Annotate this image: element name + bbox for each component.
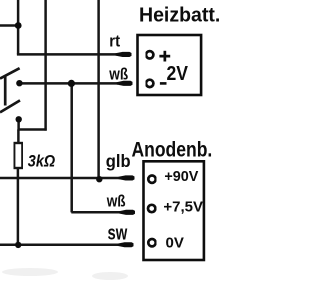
svg-text:+90V: +90V bbox=[164, 169, 198, 185]
svg-text:wß: wß bbox=[108, 65, 128, 84]
svg-text:rt: rt bbox=[109, 33, 120, 51]
svg-text:3kΩ: 3kΩ bbox=[28, 153, 55, 171]
svg-text:2V: 2V bbox=[167, 62, 189, 84]
svg-text:0V: 0V bbox=[166, 235, 184, 252]
svg-text:sw: sw bbox=[108, 221, 128, 244]
svg-text:Anodenb.: Anodenb. bbox=[132, 138, 213, 162]
svg-text:wß: wß bbox=[106, 192, 126, 211]
svg-text:glb: glb bbox=[106, 150, 131, 171]
svg-text:+7,5V: +7,5V bbox=[163, 199, 203, 216]
svg-text:Heizbatt.: Heizbatt. bbox=[139, 4, 220, 26]
